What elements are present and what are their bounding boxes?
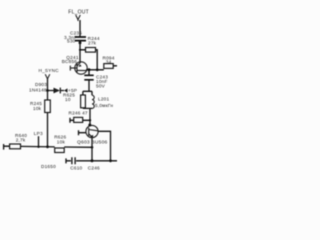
svg-text:R246 47: R246 47	[69, 111, 88, 116]
svg-text:10k: 10k	[57, 139, 66, 144]
svg-text:34: 34	[106, 59, 112, 64]
svg-text:BC856: BC856	[62, 59, 78, 64]
svg-text:D1650: D1650	[41, 164, 56, 169]
svg-text:27k: 27k	[88, 41, 97, 46]
svg-text:LP3: LP3	[34, 131, 43, 136]
svg-text:10k: 10k	[33, 106, 42, 111]
svg-text:C246: C246	[88, 165, 100, 170]
svg-text:5,0мкГн: 5,0мкГн	[95, 103, 113, 108]
svg-text:L201: L201	[98, 96, 109, 101]
svg-text:50V: 50V	[96, 84, 106, 89]
svg-text:10: 10	[65, 97, 71, 102]
svg-text:FL_OUT: FL_OUT	[68, 9, 89, 15]
svg-text:D903: D903	[35, 82, 47, 87]
svg-text:2,7k: 2,7k	[16, 138, 26, 143]
svg-text:C610: C610	[70, 165, 82, 170]
svg-text:1N4148: 1N4148	[29, 87, 47, 92]
svg-text:H_SYNC: H_SYNC	[39, 68, 60, 73]
svg-text:Q603 BU506: Q603 BU506	[77, 140, 108, 146]
svg-text:530: 530	[67, 39, 76, 44]
